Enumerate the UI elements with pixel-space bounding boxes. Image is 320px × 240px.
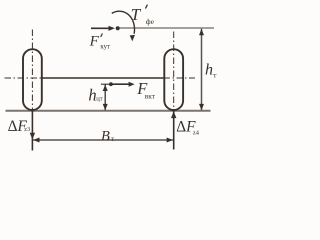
svg-text:F: F <box>89 34 100 50</box>
svg-text:h: h <box>205 61 213 78</box>
svg-text:кут: кут <box>100 43 110 50</box>
svg-text:вкт: вкт <box>145 92 156 101</box>
svg-text:т: т <box>111 136 114 143</box>
svg-text:т: т <box>213 71 217 79</box>
svg-text:B: B <box>101 128 110 144</box>
svg-text:фе: фе <box>146 17 155 26</box>
svg-text:z4: z4 <box>193 129 200 136</box>
svg-text:T: T <box>131 5 142 24</box>
svg-text:z3: z3 <box>24 126 30 133</box>
svg-text:цт: цт <box>96 96 103 103</box>
